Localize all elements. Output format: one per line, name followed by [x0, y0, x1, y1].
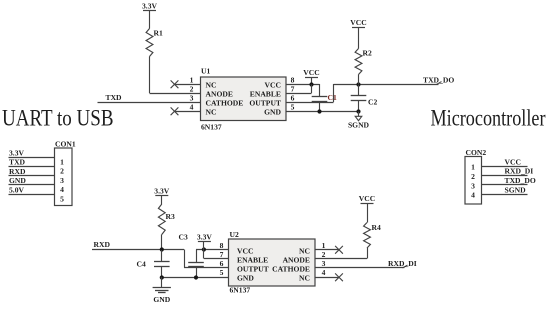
power 3.3V rail symbol (top left) — [142, 1, 157, 10]
svg-text:GND: GND — [264, 108, 281, 117]
svg-text:4: 4 — [60, 185, 64, 194]
svg-text:NC: NC — [206, 108, 217, 117]
wire TXD to U1 pin 3 (CATHODE) — [98, 102, 201, 104]
wire U2 pin 5 (GND) — [162, 277, 229, 279]
svg-text:ENABLE: ENABLE — [250, 90, 281, 99]
net label VCC (CON2 pin1) — [505, 157, 521, 166]
svg-text:R1: R1 — [154, 29, 163, 38]
power VCC symbol (above R2) — [350, 18, 366, 28]
svg-text:VCC: VCC — [350, 18, 366, 27]
net label 3.3V (CON1 pin1) — [9, 148, 24, 157]
svg-text:1: 1 — [190, 76, 194, 85]
pin number 8 (U2) — [220, 241, 224, 250]
pin label ENABLE (U1 pin7) — [250, 90, 281, 99]
junction C4/GND — [160, 275, 164, 279]
svg-text:OUTPUT: OUTPUT — [237, 265, 269, 274]
junction C2/SGND on GND line — [356, 109, 360, 113]
junction VCC / pin8 — [309, 82, 313, 86]
wire CON1 pin 2 — [9, 166, 55, 168]
svg-text:GND: GND — [153, 295, 170, 304]
junction R2/C2 on TXD_DO line — [356, 82, 360, 86]
svg-text:5.0V: 5.0V — [9, 186, 24, 195]
pin label NC (U2 pin1) — [299, 247, 310, 256]
svg-text:5: 5 — [291, 103, 295, 112]
wire RXD down to U2 pin 6 (OUTPUT) — [184, 250, 229, 268]
wire U1 pin 6 (OUTPUT) up to TXD_DO line — [286, 84, 334, 103]
pin number 7 (U1) — [291, 85, 295, 94]
capacitor C3 — [179, 233, 204, 278]
svg-text:OUTPUT: OUTPUT — [249, 99, 281, 108]
net label SGND (CON2 pin4) — [505, 186, 527, 195]
svg-text:TXD_DO: TXD_DO — [505, 176, 536, 185]
wire U2 pin 4 stub — [315, 277, 339, 279]
svg-text:3.3V: 3.3V — [154, 187, 169, 196]
svg-text:RXD_DI: RXD_DI — [505, 167, 534, 176]
no-connect X on U1 pin 1 — [171, 80, 179, 88]
pin number 1 (U1) — [190, 76, 194, 85]
svg-text:NC: NC — [206, 81, 217, 90]
wire CON1 pin 5 — [9, 194, 55, 196]
IC U2 body (6N137 optocoupler) — [229, 239, 316, 286]
svg-text:SGND: SGND — [505, 186, 527, 195]
svg-text:4: 4 — [471, 191, 475, 200]
net label 5.0V (CON1 pin5) — [9, 186, 24, 195]
pin label VCC (U2 pin8) — [237, 247, 253, 256]
ground SGND symbol (top) — [348, 112, 370, 130]
pin number 5 (U2) — [220, 268, 224, 277]
value label 6N137 (U1) — [201, 123, 222, 132]
pin label GND (U1 pin5) — [264, 108, 281, 117]
pin number 4 (U2) — [322, 268, 326, 277]
pin number 6 (U1) — [291, 94, 295, 103]
svg-text:3: 3 — [471, 181, 475, 190]
svg-text:TXD_DO: TXD_DO — [423, 76, 454, 85]
svg-text:4: 4 — [190, 103, 194, 112]
pin number 4 (U1) — [190, 103, 194, 112]
capacitor C2 — [351, 85, 378, 112]
junction R3/C4 on RXD line — [160, 247, 164, 251]
wire R2 to TXD_DO node — [358, 75, 360, 85]
pin number 3 (U2) — [322, 259, 326, 268]
net label TXD_DO — [423, 76, 454, 85]
pin number 1 (CON1) — [60, 157, 64, 166]
power 3.3V symbol (near C3) — [197, 233, 212, 242]
wire U2 pin 1 stub — [315, 249, 339, 251]
svg-text:3: 3 — [60, 176, 64, 185]
net label TXD_DO (CON2 pin3) — [505, 176, 536, 185]
connector CON2 body — [465, 148, 486, 204]
svg-text:2: 2 — [60, 167, 64, 176]
pin label OUTPUT (U1 pin6) — [249, 99, 281, 108]
svg-text:3.3V: 3.3V — [142, 1, 157, 10]
svg-text:R4: R4 — [372, 223, 381, 232]
resistor R1 — [146, 29, 163, 57]
svg-text:SGND: SGND — [348, 121, 370, 130]
pin label NC (U1 pin1) — [206, 81, 217, 90]
junction C1 on GND line — [317, 109, 321, 113]
svg-text:TXD: TXD — [9, 158, 26, 167]
svg-text:VCC: VCC — [505, 157, 521, 166]
svg-text:2: 2 — [322, 250, 326, 259]
svg-text:RXD: RXD — [9, 167, 26, 176]
pin number 4 (CON1) — [60, 185, 64, 194]
pin number 2 (U1) — [190, 85, 194, 94]
svg-text:7: 7 — [220, 250, 224, 259]
svg-text:VCC: VCC — [303, 68, 319, 77]
wire VCC to R2 — [358, 27, 360, 49]
wire U1 pin 8 (VCC) — [286, 84, 320, 86]
pin label CATHODE (U2 pin3) — [272, 265, 310, 274]
pin label VCC (U1 pin8) — [265, 81, 281, 90]
pin number 3 (CON2) — [471, 181, 475, 190]
net label TXD (CON1 pin2) — [9, 158, 26, 167]
wire U2 pin 2 (ANODE) to R4 — [315, 248, 368, 259]
svg-text:7: 7 — [291, 85, 295, 94]
svg-text:UART to USB: UART to USB — [2, 106, 114, 131]
svg-text:8: 8 — [291, 76, 295, 85]
pin label ENABLE (U2 pin7) — [237, 256, 268, 265]
reference designator U2 — [230, 230, 239, 239]
wire CON1 pin 1 — [9, 157, 55, 159]
svg-text:NC: NC — [299, 247, 310, 256]
pin label OUTPUT (U2 pin6) — [237, 265, 269, 274]
reference designator U1 — [201, 67, 210, 76]
wire R1 to U1 pin 2 (ANODE) — [150, 57, 201, 94]
pin label GND (U2 pin5) — [237, 274, 254, 283]
svg-text:GND: GND — [237, 274, 254, 283]
wire CON2 pin 4 — [482, 194, 528, 196]
pin number 4 (CON2) — [471, 191, 475, 200]
wire U2 pin 8 (VCC) — [196, 249, 229, 251]
net label RXD — [94, 240, 111, 249]
junction 3.3V / pin8 (U2) — [202, 247, 206, 251]
net label RXD_DI (CON2 pin2) — [505, 167, 534, 176]
pin label NC (U2 pin4) — [299, 274, 310, 283]
wire U1 pin 1 stub — [175, 84, 201, 86]
svg-text:U1: U1 — [201, 67, 210, 76]
svg-text:1: 1 — [322, 241, 326, 250]
svg-text:CON2: CON2 — [466, 148, 487, 157]
wire CON1 pin 3 — [9, 175, 55, 177]
pin label ANODE (U2 pin2) — [283, 256, 310, 265]
wire VCC symbol to pin 8 line — [311, 77, 313, 84]
pin number 5 (CON1) — [60, 194, 64, 203]
svg-text:R2: R2 — [363, 49, 372, 58]
svg-text:U2: U2 — [230, 230, 239, 239]
svg-text:5: 5 — [60, 194, 64, 203]
svg-text:ENABLE: ENABLE — [237, 256, 268, 265]
ground GND symbol (bottom) — [153, 277, 171, 304]
wire U1 pin 5 (GND) to SGND — [286, 111, 359, 113]
title Microcontroller — [431, 106, 546, 131]
wire RXD line — [92, 249, 184, 251]
pin number 8 (U1) — [291, 76, 295, 85]
svg-text:2: 2 — [190, 85, 194, 94]
power VCC symbol (above R4) — [359, 194, 375, 203]
svg-text:1: 1 — [471, 163, 475, 172]
no-connect X on U1 pin 4 — [171, 107, 179, 115]
pin number 5 (U1) — [291, 103, 295, 112]
pin number 3 (CON1) — [60, 176, 64, 185]
wire R3 to RXD line — [161, 235, 163, 250]
net label RXD_DI — [388, 259, 417, 268]
svg-text:Microcontroller: Microcontroller — [431, 106, 546, 131]
power 3.3V rail symbol (above R3) — [154, 187, 169, 196]
svg-text:ANODE: ANODE — [283, 256, 310, 265]
svg-text:VCC: VCC — [359, 194, 375, 203]
no-connect X on U2 pin 1 — [335, 246, 343, 254]
svg-text:NC: NC — [299, 274, 310, 283]
value label 6N137 (U2) — [230, 286, 251, 295]
svg-text:6N137: 6N137 — [230, 286, 251, 295]
junction C3/GND — [194, 275, 198, 279]
pin number 2 (U2) — [322, 250, 326, 259]
wire CON2 pin 1 — [482, 166, 528, 168]
power VCC symbol (above U1 pin 8) — [303, 68, 319, 78]
title UART to USB — [2, 106, 114, 131]
wire 3.3V to R3 — [161, 196, 163, 204]
svg-text:6N137: 6N137 — [201, 123, 222, 132]
pin label ANODE (U1 pin2) — [206, 90, 233, 99]
svg-text:3.3V: 3.3V — [197, 233, 212, 242]
svg-text:3.3V: 3.3V — [9, 148, 24, 157]
resistor R2 — [355, 49, 372, 75]
net label RXD (CON1 pin3) — [9, 167, 26, 176]
pin number 2 (CON2) — [471, 172, 475, 181]
wire 3.3V to R1 — [149, 11, 151, 29]
wire CON2 pin 3 — [482, 184, 528, 186]
wire 3.3V symbol to U2 pin8 / pin7 — [203, 242, 205, 259]
svg-text:3: 3 — [322, 259, 326, 268]
pin number 1 (CON2) — [471, 163, 475, 172]
svg-text:VCC: VCC — [237, 247, 253, 256]
svg-text:CON1: CON1 — [55, 139, 76, 148]
svg-text:C1: C1 — [328, 93, 337, 102]
pin number 6 (U2) — [220, 259, 224, 268]
resistor R4 — [364, 223, 381, 249]
capacitor C4 — [137, 250, 170, 277]
resistor R3 — [158, 204, 175, 235]
net label TXD — [106, 93, 123, 102]
pin label CATHODE (U1 pin3) — [206, 99, 244, 108]
wire OUTPUT node to TXD_DO — [334, 82, 442, 85]
svg-text:R3: R3 — [166, 212, 175, 221]
pin number 2 (CON1) — [60, 167, 64, 176]
wire CON1 pin 4 — [9, 184, 55, 186]
svg-text:VCC: VCC — [265, 81, 281, 90]
svg-text:6: 6 — [291, 94, 295, 103]
connector CON1 body — [55, 139, 76, 205]
svg-text:6: 6 — [220, 259, 224, 268]
wire U1 pin 7 tied to VCC — [286, 85, 312, 94]
wire U2 pin 3 (CATHODE) RXD_DI line — [315, 265, 408, 268]
pin number 3 (U1) — [190, 94, 194, 103]
svg-text:C2: C2 — [368, 98, 377, 107]
svg-text:8: 8 — [220, 241, 224, 250]
wire R4 to VCC — [367, 203, 369, 222]
svg-text:5: 5 — [220, 268, 224, 277]
wire CON2 pin 2 — [482, 175, 528, 177]
pin label NC (U1 pin4) — [206, 108, 217, 117]
wire U1 pin 4 stub — [175, 111, 201, 113]
svg-text:RXD_DI: RXD_DI — [388, 259, 417, 268]
svg-text:RXD: RXD — [94, 240, 111, 249]
svg-text:CATHODE: CATHODE — [272, 265, 310, 274]
svg-text:1: 1 — [60, 157, 64, 166]
svg-text:GND: GND — [9, 176, 26, 185]
no-connect X on U2 pin 4 — [335, 273, 343, 281]
pin number 1 (U2) — [322, 241, 326, 250]
pin number 7 (U2) — [220, 250, 224, 259]
capacitor C1 — [312, 84, 337, 112]
svg-text:ANODE: ANODE — [206, 90, 233, 99]
svg-text:4: 4 — [322, 268, 326, 277]
svg-text:C4: C4 — [137, 260, 146, 269]
svg-text:C3: C3 — [179, 233, 188, 242]
IC U1 body (6N137 optocoupler) — [201, 77, 287, 121]
wire U2 pin 7 tied to 3.3V — [204, 258, 229, 260]
net label GND (CON1 pin4) — [9, 176, 26, 185]
svg-text:2: 2 — [471, 172, 475, 181]
svg-text:CATHODE: CATHODE — [206, 99, 244, 108]
svg-text:TXD: TXD — [106, 93, 123, 102]
svg-text:3: 3 — [190, 94, 194, 103]
